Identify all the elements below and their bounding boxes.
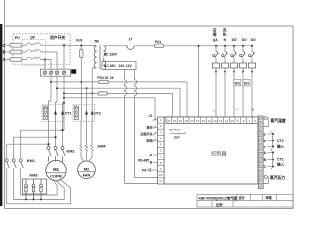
wire AC36 drop x=124.5 with hops: [125, 70, 127, 184]
svg-text:审核: 审核: [266, 195, 273, 200]
svg-text:相序: 相序: [174, 135, 180, 140]
relay branch 5: [251, 46, 253, 117]
svg-text:DO: DO: [232, 38, 237, 42]
svg-text:ua ub uc: ua ub uc: [169, 128, 181, 132]
controller box: [164, 117, 258, 184]
svg-text:FU3: FU3: [76, 39, 82, 43]
controller left terminal strip: [158, 117, 165, 184]
branch 5 coil: [248, 63, 255, 68]
svg-text:14: 14: [207, 119, 211, 123]
svg-text:DO: DO: [251, 38, 256, 42]
svg-text:M2: M2: [84, 166, 90, 171]
svg-text:蒸汽温度: 蒸汽温度: [271, 118, 286, 123]
relay branch 2: [224, 46, 226, 117]
fuse FU row 1: [10, 43, 22, 47]
svg-text:缺相: 缺相: [145, 138, 152, 143]
wire phase row y=59.5: [6, 59, 10, 61]
svg-text:M1: M1: [53, 167, 59, 172]
user switch dashed box 用户开关: [13, 34, 70, 64]
sensor steam pressure: [263, 176, 268, 184]
KM3 element x=33.5: [32, 179, 35, 199]
branch 5 contact: [249, 52, 254, 59]
input row y=127.3: [153, 125, 158, 129]
current transformer box CT2: [73, 105, 95, 122]
relay branch 1: [215, 46, 217, 117]
fuse FU row 2: [10, 50, 22, 54]
svg-text:蒸汽压力: 蒸汽压力: [270, 175, 285, 180]
KM3 element x=41: [40, 179, 43, 199]
CT1 CT arrows: [54, 111, 57, 115]
svg-text:KB0 05/08Q/09/12电气图: KB0 05/08Q/09/12电气图: [199, 195, 238, 200]
border frame: [5, 0, 294, 209]
svg-text:24V, 12V: 24V, 12V: [119, 64, 133, 68]
svg-text:18: 18: [184, 119, 188, 123]
DO labels mid: [234, 79, 241, 86]
wires M1 leads down from CT1: [49, 122, 63, 147]
svg-text:FU1: FU1: [155, 40, 161, 44]
svg-text:比例: 比例: [216, 202, 223, 207]
wires to controller top (turn downs): [173, 82, 188, 117]
wire AC220 bus: [103, 45, 252, 47]
svg-text:21: 21: [167, 119, 171, 123]
input row y=133.8: [153, 132, 158, 136]
fuse FU row 3: [10, 58, 22, 62]
svg-text:19: 19: [179, 119, 183, 123]
breaker QF dotted box: [22, 40, 46, 66]
CT2 CT arrows: [85, 111, 88, 115]
title block: [197, 195, 293, 208]
svg-text:PG3 GL 16: PG3 GL 16: [97, 76, 113, 80]
KM3 starter resistor box: [23, 179, 47, 194]
svg-text:AC 36V: AC 36V: [104, 64, 116, 68]
svg-text:C1: C1: [149, 114, 153, 118]
svg-text:输入: 输入: [277, 143, 285, 148]
svg-text:KM4: KM4: [98, 145, 107, 149]
wire AC36 drop x=134.5 with hops: [135, 70, 137, 178]
svg-text:KM3: KM3: [30, 174, 38, 178]
junction dots on M1 leads: [61, 129, 63, 131]
svg-text:16: 16: [196, 119, 200, 123]
middle line: [57, 87, 180, 89]
fuse line 1: [51, 81, 187, 83]
breaker QF pole 1: [27, 43, 43, 46]
wires M2 leads down from CT2: [81, 122, 92, 146]
motor M1 COPM circle: [46, 160, 66, 180]
svg-text:20: 20: [173, 119, 177, 123]
svg-text:RS-485: RS-485: [138, 158, 149, 162]
svg-text:10: 10: [230, 119, 234, 123]
terminal strip XT: [41, 69, 71, 76]
svg-text:CT1: CT1: [65, 112, 72, 116]
svg-text:B: B: [252, 108, 254, 112]
svg-text:QF: QF: [30, 36, 36, 40]
branch 3 coil: [230, 63, 237, 68]
wire bus feed to controller: [198, 46, 200, 117]
svg-text:DO: DO: [242, 38, 247, 42]
svg-text:B: B: [3, 50, 6, 55]
controller right terminal strip: [258, 116, 263, 189]
contactor KM1 contacts: [5, 159, 9, 170]
junction dots XT drops: [63, 97, 65, 99]
wire phase row y=52: [6, 51, 10, 53]
wire XT3 down to CT1 w2: [56, 76, 58, 104]
svg-text:KM1: KM1: [27, 159, 35, 163]
wires taper into M2: [81, 151, 92, 161]
wire loop to KM1 contacts: [7, 130, 64, 158]
scan edge bar: [0, 24, 2, 206]
terminal XT-2: [49, 71, 52, 74]
contactor KM2 contacts: [47, 147, 51, 162]
wires M1 bottom leads: [53, 179, 71, 188]
svg-text:c: c: [264, 145, 266, 149]
svg-text:QA: QA: [213, 38, 219, 42]
sensor steam temperature: [263, 117, 268, 127]
branch 4 coil: [239, 63, 246, 68]
fuse line 2: [64, 92, 173, 94]
svg-text:b: b: [264, 139, 266, 143]
wire phase row y=45.2: [6, 44, 10, 46]
label XT (black): [71, 69, 76, 73]
svg-text:CT2: CT2: [277, 139, 284, 143]
branch 2 contact: [222, 52, 227, 59]
KM3 element x=26: [25, 179, 28, 199]
svg-text:用户开关: 用户开关: [49, 35, 65, 40]
wires KM1 to bottom bus: [7, 170, 71, 204]
branch 1 contact: [213, 52, 218, 59]
svg-text:输入: 输入: [277, 162, 285, 167]
input row y=140.3: [153, 138, 158, 142]
wire primary bottom down to fuse line: [92, 68, 96, 105]
middle line stub to CT2 w2: [86, 88, 88, 104]
svg-text:12: 12: [219, 119, 223, 123]
svg-text:控制器: 控制器: [211, 150, 227, 158]
svg-text:a: a: [264, 132, 266, 136]
branch 1 coil: [212, 63, 219, 68]
svg-text:COPM: COPM: [50, 175, 61, 179]
terminal XT-1: [43, 71, 46, 74]
wire XT4 long drop: [63, 76, 65, 130]
input row y=119.8: [153, 118, 158, 122]
contactor KM4 contacts (chevrons): [80, 145, 83, 151]
svg-text:C: C: [3, 43, 6, 48]
wires through CT1: [49, 105, 63, 122]
terminal XT-4: [62, 71, 65, 74]
current transformer box CT1: [42, 105, 64, 122]
branch 3 contact: [231, 52, 236, 59]
svg-text:CT1: CT1: [277, 158, 284, 162]
relay branch 3: [233, 46, 235, 117]
controller top terminal strip: [166, 117, 258, 124]
CT1 secondary terminal strip: [43, 106, 47, 120]
wire drops to controller left bottom: [125, 183, 158, 185]
svg-text:FU: FU: [15, 36, 20, 40]
wires through CT2: [81, 105, 92, 122]
branch 4 contact: [240, 52, 245, 59]
svg-text:FAN: FAN: [83, 174, 91, 178]
terminal XT-3: [55, 71, 58, 74]
wire XT2 down to CT1 w1: [49, 76, 52, 104]
svg-text:11: 11: [225, 119, 228, 123]
relay branch 4: [242, 46, 244, 117]
svg-text:13: 13: [213, 119, 217, 123]
svg-text:A: A: [3, 57, 6, 62]
svg-text:DO: DO: [235, 81, 241, 85]
svg-text:15: 15: [202, 119, 206, 123]
motor M2 FAN circle: [78, 161, 96, 179]
svg-text:Y: Y: [236, 108, 238, 112]
breaker QF pole 2: [27, 49, 43, 52]
AC36V terminal box: [102, 62, 136, 70]
svg-text:急停: 急停: [146, 125, 152, 130]
svg-text:TB: TB: [94, 40, 99, 44]
svg-text:11: 11: [159, 179, 162, 183]
wire w1 bottom lead: [102, 58, 104, 62]
svg-text:KM2: KM2: [67, 150, 75, 154]
svg-text:JT: JT: [129, 38, 133, 42]
wire C1 sense line to controller: [64, 98, 158, 120]
svg-text:10: 10: [159, 173, 163, 177]
wires QF row extensions to transformer: [63, 44, 97, 46]
svg-text:CT2: CT2: [94, 112, 101, 116]
svg-text:远程开关: 远程开关: [140, 131, 152, 136]
wires QF rows down to terminal strip: [43, 45, 65, 69]
svg-text:AC 220V: AC 220V: [104, 52, 118, 56]
CT2 secondary terminal strip: [74, 106, 78, 120]
branch 2 coil: [221, 63, 228, 68]
svg-text:DO: DO: [244, 81, 250, 85]
svg-text:FG: FG: [142, 169, 147, 173]
svg-text:17: 17: [190, 119, 194, 123]
svg-text:设计: 设计: [239, 195, 246, 200]
breaker QF pole 3: [27, 57, 43, 60]
